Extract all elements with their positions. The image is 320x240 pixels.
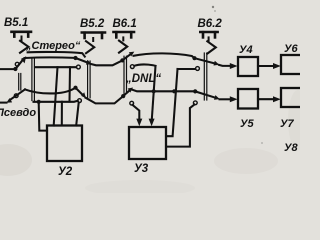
svg-text:„DNL“: „DNL“ (125, 73, 161, 85)
node pivot B6.1 upper (120, 58, 124, 62)
wire long B6.1 to B6.2 lower pivot (132, 90, 195, 92)
svg-text:В5.1: В5.1 (4, 17, 28, 29)
wire B6.1 circle to corner down (134, 64, 155, 65)
block U3 (129, 127, 166, 159)
button bracket B5.1 (12, 32, 32, 37)
switch lever B5.2 lower (76, 88, 84, 96)
wire armature top run (28, 52, 85, 57)
block U5 (238, 89, 258, 109)
node junction W1 (37, 100, 41, 104)
wire B5.2 upper to B6.1 pivot (91, 61, 123, 66)
button chevron B6.1 (122, 37, 124, 40)
wire U5 to U7 (258, 98, 273, 100)
svg-text:В6.2: В6.2 (198, 18, 223, 30)
switch lever B6.2 upper (195, 58, 216, 63)
svg-text:У7: У7 (280, 118, 294, 130)
wire to B6.2 upper circle (178, 68, 195, 70)
button chevron B6.2 (208, 37, 210, 40)
wire U3 output A up to corner (166, 69, 177, 136)
switch lever B6.1 upper (122, 53, 131, 60)
wire branch down to U2 left (39, 102, 47, 131)
node pivot B6.1 lower (121, 94, 125, 98)
block U2 (47, 126, 82, 162)
wire circle bus (35, 66, 76, 68)
contact circle B6.2 lower (193, 101, 197, 105)
wire feed U2 mid (68, 67, 71, 101)
svg-text:Псевдо: Псевдо (0, 107, 36, 119)
node junction J2 (172, 89, 176, 93)
svg-text:У4: У4 (239, 44, 253, 56)
switch lever B6.1 lower (123, 90, 130, 96)
inner link B5.1 (19, 74, 21, 91)
svg-text:В5.2: В5.2 (80, 18, 105, 30)
wire into U5 (220, 98, 231, 100)
wire feed U2 left (54, 67, 58, 125)
node pivot B6.2 lower (193, 89, 197, 93)
button bracket B5.2 (82, 33, 105, 39)
svg-text:У5: У5 (240, 118, 254, 130)
node pivot B5.1 upper (13, 67, 17, 71)
node junction J1 (152, 89, 156, 93)
block U4 (238, 57, 258, 76)
wire U3 output B staircase (166, 105, 194, 147)
button chevron B5.2 (92, 38, 94, 41)
wire into U3 input 1 (133, 105, 140, 120)
node pivot B5.2 upper (73, 56, 77, 60)
wire U4 to U6 (258, 65, 273, 67)
contact circle B6.1 upper (130, 65, 134, 69)
block U7 (281, 88, 302, 107)
wire feed U2 from W1 (61, 102, 63, 126)
wire feed U2 from circle (76, 103, 79, 126)
mech link B6.1 (124, 56, 127, 93)
svg-text:В6.1: В6.1 (113, 18, 137, 30)
switch lever B5.2 upper (76, 58, 89, 63)
wire B5.1 lower to B5.2 pivot (25, 88, 75, 93)
contact circle B6.2 upper (196, 67, 200, 71)
contact circle B5.1 lower (14, 94, 18, 98)
wire input lower left (0, 102, 7, 104)
svg-text:У8: У8 (284, 142, 298, 154)
wire corner down through J1 to U3 input 2 (152, 66, 156, 120)
wire dip B5.2 to B6.1 lower pivot (86, 96, 124, 103)
button chevron B5.1 (21, 37, 23, 41)
wire into U4 (219, 65, 231, 66)
contact circle B5.2 lower (78, 99, 82, 103)
button bracket B6.1 (114, 32, 135, 37)
wire input upper left (0, 68, 15, 70)
switch lever B6.2 lower (195, 91, 216, 98)
mech link B6.2 (204, 53, 207, 100)
svg-text:„Стерео“: „Стерео“ (25, 40, 81, 52)
button bracket B6.2 (200, 32, 217, 37)
switch lever B5.1 lower (10, 89, 26, 100)
svg-text:У2: У2 (58, 166, 73, 178)
switch lever B5.1 upper (15, 59, 23, 69)
contact circle B6.1 lower (130, 101, 134, 105)
node pivot B6.2 upper (192, 56, 196, 60)
contact circle B5.1 upper (15, 62, 19, 66)
wire W1 to B5.2 lower circle (34, 101, 78, 102)
wire B5.1 to B5.2 pivot (25, 56, 75, 59)
mech link B5.2 (88, 61, 91, 98)
arrowhead U3 input 2 (149, 119, 155, 127)
svg-text:У6: У6 (284, 43, 298, 55)
paper background (0, 0, 300, 193)
block U6 (281, 55, 302, 74)
wire B6.1 arrow to B6.2 pivot (134, 53, 195, 58)
contact circle B5.2 upper (77, 65, 81, 69)
node pivot B5.2 lower (73, 86, 77, 90)
svg-text:У3: У3 (134, 163, 149, 175)
mech link B5.1 (32, 58, 35, 100)
